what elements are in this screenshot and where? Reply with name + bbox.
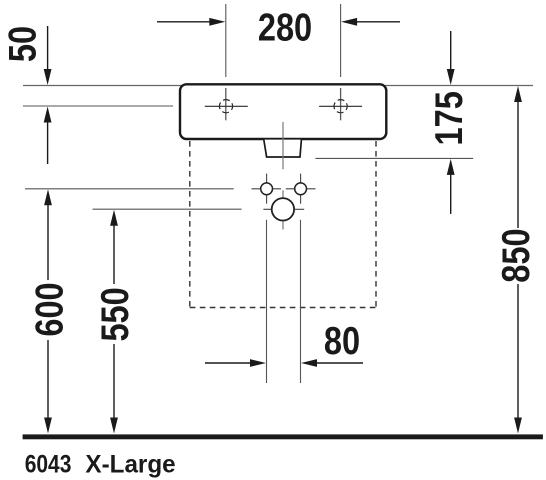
dimension 80 left arrow [205,362,252,364]
extension line 80 left [266,220,268,383]
dimension 850 line lower [517,284,519,420]
extension line 80 right [300,220,302,383]
reference line top rim level [23,85,533,87]
dimension 600 line [47,196,49,280]
washbasin body [180,84,386,139]
dimension 280 right arrow [355,21,400,23]
svg-text:175: 175 [426,91,471,145]
extension line 280 left inner [225,88,227,120]
dimension 50 lower arrow [47,120,49,164]
reference line faucet level [23,105,173,107]
dimension 175 lower arrow [450,172,452,214]
extension line 280 right inner [340,88,342,120]
drain hole cross horizontal [263,208,304,210]
svg-text:280: 280 [258,4,312,49]
dimension 80 right arrow [315,362,363,364]
reference line 550 level [93,208,242,210]
overflow outlet trapezoid [264,140,302,157]
reference line 175 level [315,157,473,159]
extension line 280 left [225,4,227,77]
dashed installation outline right [375,141,377,308]
faucet hole left circle [219,100,232,113]
svg-text:600: 600 [27,282,72,336]
extension line 280 right [340,4,342,77]
bolt hole left circle [261,183,273,195]
floor line [23,434,543,439]
svg-text:6043: 6043 [25,450,72,478]
faucet hole left cross [205,105,248,107]
bolt hole right cross [286,188,316,190]
svg-text:50: 50 [0,26,44,62]
svg-text:X-Large: X-Large [85,451,175,478]
svg-text:850: 850 [493,228,538,282]
svg-text:550: 550 [92,287,137,341]
faucet hole right circle [334,100,347,113]
bolt hole right circle [295,183,307,195]
dimension 50 upper arrow [47,26,49,72]
drain hole circle [272,198,294,220]
centre line upper [282,122,284,169]
dashed installation outline left [189,141,191,308]
dimension 550 line [113,216,115,284]
svg-text:80: 80 [324,318,360,363]
centre line lower (drain vertical cross) [282,190,284,229]
reference line 600 level [25,188,234,190]
dimension 280 left arrow [157,21,212,23]
dimension 175 upper arrow [450,31,452,72]
bolt hole left cross [252,188,282,190]
faucet hole right cross [319,105,362,107]
dashed installation outline bottom [190,307,376,309]
dimension 850 line upper [517,98,519,228]
